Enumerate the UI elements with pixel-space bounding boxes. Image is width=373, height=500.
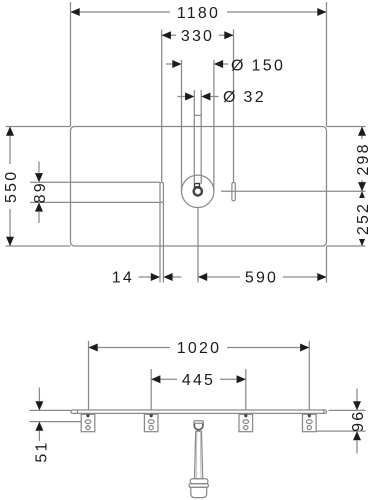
dimension O150	[166, 57, 285, 191]
bottle trap collar	[189, 479, 208, 487]
left mounting slot 14x89	[160, 182, 163, 202]
svg-text:550: 550	[3, 170, 20, 203]
dimension 89	[30, 162, 160, 224]
svg-text:445: 445	[182, 372, 215, 389]
dimension 51	[30, 388, 82, 463]
svg-text:1020: 1020	[177, 340, 221, 357]
dimension 96	[316, 389, 367, 454]
bottle trap cup	[191, 487, 207, 497]
bracket 3	[239, 414, 253, 431]
dimension 1020	[89, 340, 310, 410]
svg-text:89: 89	[32, 181, 49, 203]
console plate edge-on	[71, 410, 327, 413]
drain lever tab	[195, 184, 200, 188]
drain waste ring O32	[194, 187, 202, 195]
svg-text:1180: 1180	[177, 5, 220, 22]
dimension 330	[162, 28, 234, 182]
dimension 590	[198, 208, 327, 287]
svg-text:96: 96	[350, 410, 367, 432]
dimension 445	[151, 369, 246, 410]
svg-text:14: 14	[112, 270, 134, 287]
drain outlet fitting	[194, 421, 203, 430]
right mounting slot	[232, 182, 235, 201]
svg-text:330: 330	[181, 28, 214, 45]
dimension 1180	[71, 2, 327, 127]
dimension O32 with channel lines to drain	[178, 89, 267, 184]
dimension 550	[3, 127, 71, 247]
svg-text:51: 51	[33, 440, 50, 462]
bracket 2	[144, 414, 158, 431]
bracket 4	[303, 414, 317, 431]
dimension 252	[355, 191, 372, 246]
svg-text:590: 590	[245, 270, 278, 287]
drain recess circle O150	[182, 175, 214, 207]
console top plate outline	[71, 127, 327, 247]
right extension lines	[221, 127, 366, 247]
svg-text:298: 298	[355, 142, 372, 175]
tail pipe	[195, 431, 203, 479]
dimension 298	[355, 127, 372, 247]
bracket 1	[81, 414, 95, 431]
svg-text:Ø 32: Ø 32	[223, 89, 266, 106]
dimension 14	[112, 202, 182, 286]
svg-text:252: 252	[355, 202, 372, 235]
svg-text:Ø 150: Ø 150	[231, 57, 285, 74]
